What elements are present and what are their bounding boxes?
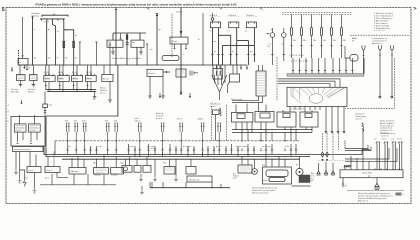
svg-text:LS re: LS re xyxy=(382,138,388,141)
small box xyxy=(143,157,151,173)
motor circle xyxy=(252,159,258,174)
fuse column F10 xyxy=(291,15,297,59)
fuse column F13 xyxy=(321,15,327,59)
ground xyxy=(139,47,143,54)
short wires tick row xyxy=(91,144,297,157)
junction dots bus M xyxy=(236,129,297,133)
twisted pair P3 xyxy=(391,45,394,98)
fog relay box xyxy=(102,65,113,82)
radio bottom connector xyxy=(342,178,348,188)
harness boundary dashed 2 xyxy=(276,57,278,100)
bus M row1 xyxy=(232,129,312,131)
box heater xyxy=(94,155,109,175)
cluster big box xyxy=(11,115,46,146)
svg-text:rt br: rt br xyxy=(98,145,102,148)
bus B4 xyxy=(62,158,300,160)
tick on frame xyxy=(260,8,262,10)
svg-text:470A/Da ganvancoa R606 n R26LL: 470A/Da ganvancoa R606 n R26LL nemasecra… xyxy=(35,3,237,7)
junction dots y188 xyxy=(152,187,222,188)
ground xyxy=(331,163,335,175)
text right xyxy=(100,88,108,95)
A1 right pin wires xyxy=(325,110,345,133)
wire colour labels top left xyxy=(34,22,77,38)
routing into pairs xyxy=(310,145,397,161)
cluster bottom box xyxy=(13,147,44,152)
svg-text:gn sw: gn sw xyxy=(100,93,106,95)
svg-text:X28 g: X28 g xyxy=(198,119,204,121)
stub xyxy=(159,93,161,98)
boundary dashed 7 xyxy=(211,103,214,141)
wire xyxy=(53,21,56,66)
svg-text:gn sw: gn sw xyxy=(45,178,50,180)
svg-text:Heiz: Heiz xyxy=(93,163,97,165)
connector xyxy=(95,42,97,65)
arrow symbol xyxy=(23,181,26,187)
bus M row2 xyxy=(232,132,312,134)
svg-text:Schalt tr: Schalt tr xyxy=(247,14,255,17)
radio top pins xyxy=(344,166,399,170)
svg-text:X25 g: X25 g xyxy=(135,120,141,122)
labels above column group xyxy=(289,55,304,57)
svg-text:Kabel tr gnrt: Kabel tr gnrt xyxy=(231,98,243,101)
border frame xyxy=(6,8,411,204)
bottom mid labels xyxy=(93,163,298,176)
relay K2 xyxy=(58,65,69,82)
speaker box M3 xyxy=(277,110,296,127)
connector pair X21 xyxy=(74,121,79,155)
wire xyxy=(146,44,148,65)
svg-text:gr: gr xyxy=(65,28,67,31)
relay box K10 xyxy=(107,40,123,47)
connector pair X22 xyxy=(82,121,87,155)
footer mark xyxy=(396,193,405,196)
routing lines below tall box xyxy=(232,96,263,103)
box A1 bottom pins xyxy=(289,107,344,111)
svg-text:Zigarre tr: Zigarre tr xyxy=(262,179,269,182)
bus B1 main xyxy=(19,64,247,66)
svg-text:Uhr tr: Uhr tr xyxy=(29,169,35,172)
svg-text:Geber tr: Geber tr xyxy=(148,72,156,75)
svg-text:Schalter: Schalter xyxy=(111,174,118,177)
ground xyxy=(14,169,18,175)
svg-text:5: 5 xyxy=(2,7,5,13)
sub bus R1 xyxy=(46,88,96,90)
svg-text:X4746: X4746 xyxy=(176,12,183,14)
twisted pair P2 xyxy=(379,45,382,98)
box SA xyxy=(69,157,86,175)
svg-text:= = = = = = =: = = = = = = = xyxy=(374,30,387,32)
svg-text:85 30: 85 30 xyxy=(44,72,50,74)
small box xyxy=(134,159,141,172)
svg-text:Rel nb: Rel nb xyxy=(103,78,110,80)
text xyxy=(231,98,243,101)
antenna coil xyxy=(362,123,364,132)
junction dots dash bus xyxy=(67,140,286,141)
stub 24 xyxy=(23,65,25,69)
wire xyxy=(120,33,122,39)
connector pair X29 xyxy=(217,123,221,155)
grounds mid bottom xyxy=(139,159,178,182)
connector pair X25 xyxy=(135,117,142,155)
wire xyxy=(180,44,182,65)
twisted pair P1 xyxy=(362,45,365,73)
svg-text:Kombi-Instrument: Kombi-Instrument xyxy=(14,148,31,151)
speaker pair W2 xyxy=(384,142,388,170)
svg-text:LS hi: LS hi xyxy=(397,139,402,141)
box blower xyxy=(111,157,124,175)
ground xyxy=(108,82,112,103)
bracket comp xyxy=(228,65,240,93)
clock box xyxy=(27,167,41,173)
switch S1 xyxy=(211,22,221,28)
labels bottom boxes xyxy=(24,174,269,183)
svg-text:Masse br: Masse br xyxy=(380,132,389,135)
tick on frame xyxy=(147,8,149,10)
box M2 xyxy=(255,103,274,123)
fuse column F14 xyxy=(331,15,337,59)
boundary dashed xyxy=(171,14,173,58)
text under xyxy=(11,88,36,94)
switch S2 xyxy=(229,22,239,28)
svg-text:M: M xyxy=(296,165,298,167)
diamond xyxy=(321,152,324,157)
connector pair X27 xyxy=(177,119,184,155)
dash bus bottom xyxy=(55,140,300,142)
drops from bus M down xyxy=(242,130,296,141)
relay drops xyxy=(45,82,91,92)
ground xyxy=(33,173,35,188)
connector pair X24 xyxy=(114,121,119,155)
wire xyxy=(139,33,141,40)
labels under switches xyxy=(209,31,253,54)
rounded connector box xyxy=(350,55,358,62)
fuse F3 xyxy=(63,41,65,47)
switch S3 xyxy=(246,22,256,28)
note text block xyxy=(374,12,394,32)
wire labels mid top xyxy=(150,29,217,56)
speaker label text xyxy=(374,132,402,140)
box switch2 xyxy=(186,159,196,174)
wire drop left of dash bus xyxy=(54,141,56,155)
corner mark top right xyxy=(414,7,417,9)
legend text xyxy=(352,37,388,45)
wire labels xyxy=(34,58,78,60)
svg-text:M: M xyxy=(244,165,246,167)
svg-text:1 2 3 4 5 6 7 8 9 10: 1 2 3 4 5 6 7 8 9 10 xyxy=(289,55,304,57)
connector pair X26 xyxy=(156,113,165,155)
ground xyxy=(324,162,328,175)
fuse F5 xyxy=(126,33,128,65)
wire from sub bus to stack xyxy=(44,91,46,95)
sub bus R2 xyxy=(47,90,96,92)
wire xyxy=(63,21,65,66)
shielded band xyxy=(287,58,364,76)
fuse column F12 xyxy=(311,15,317,59)
stub xyxy=(246,65,248,70)
radio ground xyxy=(374,178,380,190)
fuse rail xyxy=(40,19,65,21)
svg-text:Check: Check xyxy=(46,170,53,172)
line y188 xyxy=(150,187,230,189)
fuse F4 xyxy=(73,41,75,47)
svg-text:Relais: Relais xyxy=(86,78,91,80)
svg-text:Antenne tr: Antenne tr xyxy=(372,42,382,45)
rounded module xyxy=(162,56,179,61)
wire xyxy=(221,28,255,65)
svg-text:2 4: 2 4 xyxy=(209,31,211,33)
dashed feed bus top xyxy=(282,13,352,15)
box switch xyxy=(164,159,175,174)
left bottom wires xyxy=(16,152,54,181)
svg-text:Rel: Rel xyxy=(132,42,136,44)
cluster wires xyxy=(17,117,38,144)
svg-text:85 30: 85 30 xyxy=(58,72,64,74)
switch labels xyxy=(210,14,258,17)
wire long right xyxy=(46,65,118,116)
svg-text:Schalt tr: Schalt tr xyxy=(210,14,218,17)
coupler xyxy=(163,71,170,73)
wire with connector xyxy=(156,13,158,65)
svg-text:2 4: 2 4 xyxy=(245,31,247,33)
hazard sw box xyxy=(30,75,38,81)
svg-text:br: br xyxy=(75,34,77,37)
wire xyxy=(211,28,213,65)
svg-text:br bl: br bl xyxy=(285,145,290,148)
ground xyxy=(111,47,115,54)
lamp E1 xyxy=(211,18,214,21)
tick row xyxy=(67,149,298,151)
footer text xyxy=(358,192,393,202)
box xyxy=(176,69,186,77)
svg-text:vorn tr b: vorn tr b xyxy=(381,135,389,138)
connector rail X1 xyxy=(42,14,68,17)
dashed wires right bottom xyxy=(323,133,339,160)
ground xyxy=(317,163,321,175)
label row mid xyxy=(112,57,142,60)
stub xyxy=(189,93,191,98)
comp in box xyxy=(213,65,223,79)
connector stack X11 xyxy=(43,95,53,117)
connector xyxy=(79,42,81,65)
wire xyxy=(32,17,34,65)
svg-text:Masse br Karosserie: Masse br Karosserie xyxy=(252,193,268,195)
tall hatched box xyxy=(256,65,266,96)
wire xyxy=(217,28,231,65)
svg-text:31 br: 31 br xyxy=(24,177,28,180)
motor circle2 xyxy=(296,157,303,176)
ground xyxy=(18,178,22,184)
stepped wires xyxy=(278,79,340,87)
svg-text:Antenne m: Antenne m xyxy=(358,199,368,202)
coil squiggle xyxy=(219,108,221,116)
ground mid left xyxy=(109,99,111,101)
comp box xyxy=(233,157,252,180)
relay pin labels xyxy=(44,72,92,80)
check box xyxy=(45,167,60,173)
speaker pair W1 xyxy=(376,142,380,170)
radio box xyxy=(340,170,403,178)
svg-text:1 2 3 4 5 6 7 8 9: 1 2 3 4 5 6 7 8 9 xyxy=(289,109,305,111)
svg-text:X27 b: X27 b xyxy=(177,119,183,121)
fuse column F15 xyxy=(341,15,347,59)
node 25 xyxy=(26,65,28,70)
wire xyxy=(112,33,114,40)
svg-text:trtr gb: trtr gb xyxy=(172,40,178,43)
fan funnel xyxy=(212,65,227,100)
ground small xyxy=(140,189,144,195)
svg-text:Relais: Relais xyxy=(72,78,77,80)
small comp circle xyxy=(122,157,132,173)
dash separator xyxy=(350,34,410,36)
wire xyxy=(109,44,111,65)
wide box bottom xyxy=(187,176,212,182)
lamp E2 xyxy=(267,28,275,65)
connector box xyxy=(213,110,220,141)
svg-text:Radio SA tr: Radio SA tr xyxy=(362,171,373,174)
wire to bus xyxy=(18,50,20,65)
ground from sub bus xyxy=(93,91,97,99)
svg-text:Relais: Relais xyxy=(45,78,50,80)
svg-text:gn bl tr: gn bl tr xyxy=(156,117,163,120)
relay K3 xyxy=(72,65,83,82)
svg-text:SA mod: SA mod xyxy=(71,170,79,173)
box row small boxes mid xyxy=(147,69,163,76)
cluster inner right xyxy=(29,124,41,132)
instrument sw box xyxy=(17,75,26,81)
ground xyxy=(161,76,165,98)
feed box left xyxy=(18,17,28,65)
radio feed wires xyxy=(345,130,369,168)
left margin marks xyxy=(8,105,10,123)
ground xyxy=(148,76,152,98)
stub k xyxy=(21,100,23,104)
wire colour labels bottom center xyxy=(68,145,290,150)
wire xyxy=(345,46,350,58)
cluster inner left xyxy=(15,124,27,132)
wire column group into connector band xyxy=(291,58,354,74)
svg-text:Schalter hz: Schalter hz xyxy=(189,178,199,181)
svg-text:Warnblk: Warnblk xyxy=(11,91,20,94)
bottom link line xyxy=(40,174,116,185)
stubs to y188 xyxy=(150,182,221,188)
hatch box xyxy=(292,175,311,186)
wire xyxy=(115,33,117,65)
relay K1 xyxy=(44,65,55,82)
wire xyxy=(136,47,138,65)
relay box K11 xyxy=(131,40,144,47)
right text block2 xyxy=(380,120,395,135)
left component feed xyxy=(20,65,34,75)
harness boundary dashed xyxy=(345,58,395,108)
relay K4 xyxy=(85,65,96,82)
coupling xyxy=(126,41,129,45)
svg-text:30: 30 xyxy=(19,62,21,64)
control unit box A1 xyxy=(287,87,347,106)
svg-text:sw rt: sw rt xyxy=(135,117,140,120)
svg-text:br sw gn: br sw gn xyxy=(183,145,192,148)
svg-text:g s w b r g s w b g: g s w b r g s w b g xyxy=(291,60,309,63)
svg-text:sw gn: sw gn xyxy=(128,146,134,148)
bus B3b xyxy=(46,146,310,157)
label block fuse panel xyxy=(32,12,40,18)
footer line xyxy=(347,190,404,192)
wire xyxy=(202,13,204,65)
node square xyxy=(322,159,324,161)
wire xyxy=(46,21,48,66)
connector pair X23 xyxy=(105,121,110,155)
cig lighter box xyxy=(263,157,292,185)
diamond xyxy=(326,152,329,157)
svg-text:1 2 3 4 5: 1 2 3 4 5 xyxy=(43,22,50,24)
speaker pair W4 xyxy=(399,142,403,170)
bus B3a xyxy=(44,146,310,155)
svg-text:85 30: 85 30 xyxy=(72,72,78,74)
svg-text:Geblaese: Geblaese xyxy=(94,175,101,177)
box M1 xyxy=(231,104,253,123)
wires pairs to tick row xyxy=(140,152,203,157)
junction dots on bus B1 xyxy=(32,64,234,65)
svg-text:Relais: Relais xyxy=(59,78,64,80)
stub xyxy=(174,44,176,49)
connector pair X20 xyxy=(65,121,70,155)
box G12 xyxy=(170,37,188,44)
svg-text:Blinker: Blinker xyxy=(28,91,35,94)
svg-text:2 4: 2 4 xyxy=(227,31,229,33)
svg-text:gr: gr xyxy=(214,50,216,53)
drops from boxes to bus M xyxy=(236,122,312,133)
ground xyxy=(32,81,36,87)
wire long from frame xyxy=(180,8,182,38)
svg-text:sw bl rt gn br: sw bl rt gn br xyxy=(236,145,248,148)
svg-text:vorn tr: vorn tr xyxy=(210,105,216,108)
wire xyxy=(236,28,250,65)
boundary dashed xyxy=(226,105,228,141)
fan text xyxy=(210,104,221,109)
lamp E3 xyxy=(281,28,286,61)
svg-text:Schalter Blinker tr gn bl we 4: Schalter Blinker tr gn bl we 49a xyxy=(112,57,142,60)
junction dots sub bus xyxy=(45,89,91,92)
svg-text:gn we sw: gn we sw xyxy=(262,146,271,148)
text block left of radio xyxy=(311,172,315,182)
connector pair X28 xyxy=(198,119,205,155)
svg-text:gr we: gr we xyxy=(216,145,222,148)
svg-text:1 3 5 7: 1 3 5 7 xyxy=(344,166,351,168)
stub label xyxy=(11,67,13,72)
stub xyxy=(240,65,242,70)
tick on frame xyxy=(220,8,222,10)
dotted link xyxy=(318,160,355,162)
speaker box M4 xyxy=(300,110,318,127)
bus X2 xyxy=(113,32,146,34)
fuse column F11 xyxy=(301,15,307,59)
wire from top frame xyxy=(115,8,117,34)
svg-text:bl sw: bl sw xyxy=(151,148,156,150)
junction dots bus B3 xyxy=(67,154,285,160)
wire L xyxy=(57,173,68,178)
coupling bars xyxy=(190,71,198,76)
ground xyxy=(19,81,23,87)
stub xyxy=(185,44,187,49)
svg-text:Schalt tr: Schalt tr xyxy=(229,14,237,17)
wire with connector xyxy=(180,65,182,95)
svg-text:85 30: 85 30 xyxy=(86,72,92,74)
svg-text:gn bl: gn bl xyxy=(233,178,237,180)
wire xyxy=(64,30,74,65)
cassette footnote xyxy=(252,187,277,195)
right mid text blocks xyxy=(356,114,367,121)
speaker pair W3 xyxy=(392,142,396,170)
svg-text:sw rt b: sw rt b xyxy=(356,117,363,120)
